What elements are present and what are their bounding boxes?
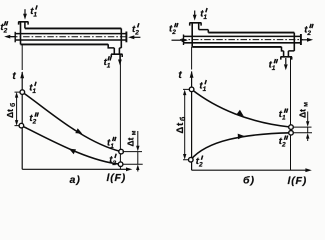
svg-text:2: 2: [112, 160, 117, 167]
svg-text:2: 2: [3, 27, 8, 34]
svg-text:Δt: Δt: [126, 137, 136, 146]
stub wall / header R: [199, 23, 209, 33]
dtm dimension a: [137, 131, 139, 172]
x-axis b: [192, 169, 308, 171]
dtb ticks a: [15, 92, 21, 126]
svg-text:l(F): l(F): [107, 172, 127, 184]
svg-text:б): б): [243, 175, 255, 187]
outer tube bottom wall: [21, 43, 109, 45]
dtm dimension b: [307, 112, 309, 142]
outer tube left cap: [20, 22, 22, 45]
flow arrow upper curve a: [75, 128, 82, 134]
node t1-doubleprime b: [289, 125, 294, 130]
svg-text:2: 2: [32, 119, 37, 126]
flow arrow lower curve a (left): [69, 149, 76, 155]
svg-text:м: м: [302, 102, 309, 107]
svg-text:2: 2: [134, 29, 139, 36]
wire exchanger to y-axis R: [191, 47, 193, 70]
label t1-prime top-left: [30, 6, 37, 19]
svg-text:1: 1: [272, 65, 276, 72]
svg-text:м: м: [131, 130, 138, 135]
label t2-prime graph a: [109, 154, 116, 167]
dtm ticks a: [123, 152, 143, 165]
outlet arrow t2-doubleprime pointing left: [9, 36, 16, 38]
flange bottom-right R: [281, 57, 293, 60]
svg-text:1: 1: [32, 88, 36, 95]
lower curve t2 b: [191, 133, 291, 160]
svg-text:2: 2: [281, 142, 286, 149]
svg-text:Δt: Δt: [175, 122, 186, 134]
step down bottom-right: [108, 44, 121, 48]
label t1-doubleprime bottom R: [269, 60, 276, 73]
label t2-doubleprime left R: [169, 24, 176, 37]
flow arrow upper curve b: [237, 110, 244, 116]
y-axis a: [21, 72, 23, 169]
label dtb graph a: [5, 103, 17, 118]
label t2-doubleprime graph a: [29, 113, 36, 126]
step down bottom-right R: [282, 47, 295, 51]
inner tube walls R: [184, 36, 301, 42]
dtb ticks b: [183, 89, 189, 159]
svg-text:t: t: [12, 71, 16, 82]
svg-text:Δt: Δt: [5, 109, 15, 118]
svg-text:а): а): [70, 174, 81, 186]
svg-text:1: 1: [203, 14, 207, 21]
tube axis dash-dot R: [180, 39, 303, 41]
node t2-prime a: [118, 162, 123, 167]
svg-text:1: 1: [107, 62, 111, 69]
label t2-doubleprime left: [0, 22, 7, 35]
label t2-doubleprime right R: [304, 24, 311, 37]
outlet stub bottom-right: [114, 48, 119, 54]
outer tube right cap: [120, 28, 122, 48]
svg-text:Δt: Δt: [297, 109, 307, 118]
wire outlet down right side a: [119, 54, 121, 169]
label t2-doubleprime graph b: [279, 136, 286, 149]
lower curve t2 a: [21, 126, 120, 165]
label t axis a: [12, 71, 16, 82]
label t1-doubleprime bottom-right: [104, 57, 111, 70]
label t1-prime top R: [200, 9, 207, 22]
flange top-left: [18, 22, 28, 25]
svg-text:1: 1: [282, 115, 286, 122]
label dtb graph b: [175, 116, 187, 134]
label b): [243, 175, 255, 187]
svg-text:б: б: [179, 116, 187, 121]
label t2-prime right: [132, 24, 139, 37]
upper curve t1 b: [192, 89, 291, 127]
outer tube left cap R: [191, 23, 193, 47]
outlet arrow t1-doubleprime down R: [285, 58, 287, 64]
dtm ticks b: [294, 127, 313, 133]
outer tube top wall R: [208, 32, 294, 34]
inner tube walls: [15, 34, 126, 40]
tube axis dash-dot: [11, 36, 128, 38]
outer tube bottom wall R: [192, 46, 281, 48]
label t1-doubleprime graph b: [279, 109, 286, 122]
wire outlet down right side b: [290, 57, 292, 170]
label t2-prime graph b: [196, 156, 203, 169]
label dtm graph a: [126, 130, 138, 146]
svg-text:б: б: [9, 103, 17, 107]
label t1-prime graph a: [29, 82, 36, 95]
label a): [70, 174, 81, 186]
node t2-prime b: [189, 157, 194, 162]
label t1-doubleprime graph a: [107, 137, 114, 150]
flange bottom-right: [111, 54, 123, 57]
outlet stub bottom-right R: [284, 51, 289, 57]
label t1-prime graph b: [199, 81, 206, 94]
dtb dimension b: [184, 93, 186, 157]
inlet arrow t1 R: [194, 11, 196, 16]
node t1-prime b: [189, 87, 194, 92]
inner tube left end cap R: [183, 35, 185, 46]
flow arrow lower curve b: [238, 134, 245, 140]
label t axis b: [178, 70, 182, 81]
outer tube right cap R: [293, 33, 295, 51]
inner tube left end cap: [14, 32, 16, 43]
label dtm graph b: [297, 102, 309, 118]
svg-text:t: t: [178, 70, 182, 81]
svg-text:2: 2: [306, 30, 311, 37]
dtb dimension a: [16, 96, 18, 123]
inner tube right end cap R: [300, 34, 302, 45]
node t1-prime a: [20, 90, 25, 95]
svg-text:1: 1: [203, 86, 207, 93]
svg-text:1: 1: [110, 143, 114, 150]
flange top-left R: [189, 23, 201, 26]
inlet arrow t2 pointing right R: [172, 39, 183, 41]
svg-text:2: 2: [171, 29, 176, 36]
y-axis b: [191, 72, 193, 171]
node t1-doubleprime a: [119, 149, 124, 154]
label l(F) a: [107, 172, 127, 184]
outlet arrow t2-doubleprime pointing right R: [302, 39, 308, 41]
outer tube top wall: [25, 27, 121, 29]
node t2-doubleprime a: [19, 123, 24, 128]
wire exchanger to y-axis: [21, 44, 23, 70]
svg-text:l(F): l(F): [288, 175, 308, 187]
label l(F) b: [288, 175, 308, 187]
svg-text:1: 1: [33, 12, 37, 19]
node t2-doubleprime b: [289, 131, 294, 136]
upper curve t1 a: [22, 92, 121, 152]
outlet arrow t1-doubleprime down: [119, 55, 121, 60]
inlet arrow t1 left: [24, 9, 26, 14]
inlet arrow t2-prime pointing left: [133, 36, 140, 38]
stub wall top-left: [24, 22, 26, 29]
x-axis a: [22, 168, 128, 170]
inner tube right end cap: [125, 32, 127, 43]
svg-text:2: 2: [198, 162, 203, 169]
